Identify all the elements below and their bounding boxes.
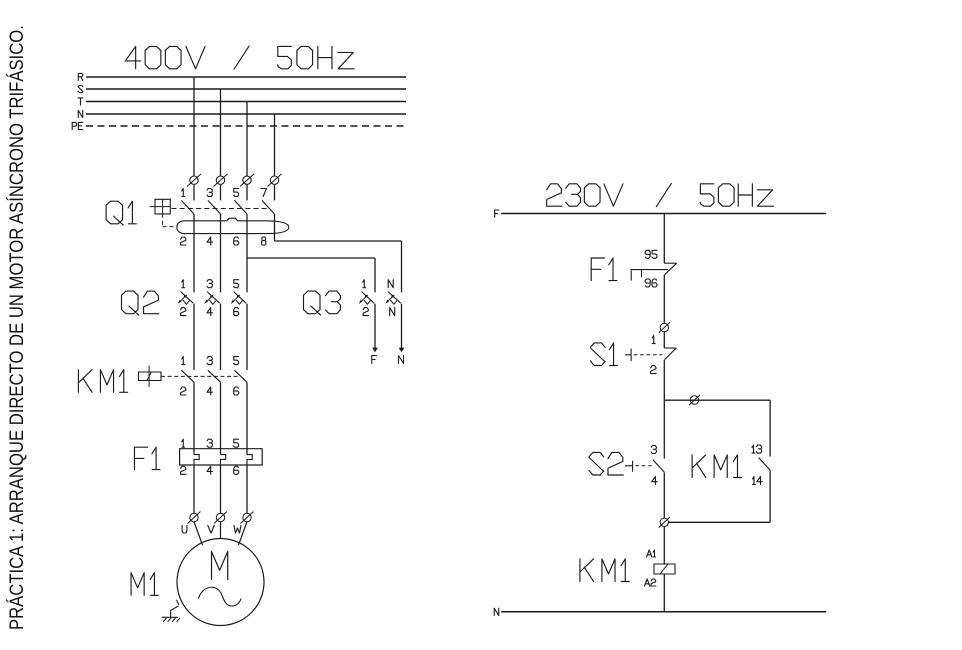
Q1 pin 8 xyxy=(262,237,266,245)
bus N xyxy=(78,110,406,117)
KM1 coil pin A2 xyxy=(645,579,656,586)
motor lead W xyxy=(239,522,248,545)
KM1 pole contact 5-6 xyxy=(234,370,247,454)
Q1 linkage xyxy=(172,208,267,210)
Q1 pin 4 xyxy=(207,237,212,245)
Q2 pin 1 xyxy=(182,280,185,288)
KM1 aux label xyxy=(692,455,741,478)
title 400V / 50Hz xyxy=(125,46,354,69)
terminal V xyxy=(214,512,227,524)
terminal branch xyxy=(689,395,700,406)
KM1 coil label xyxy=(580,559,629,582)
S2 actuator xyxy=(625,461,652,472)
KM1 pin 2 xyxy=(181,387,186,395)
ground xyxy=(162,600,180,622)
wire N to Q1 xyxy=(274,114,276,176)
Q1 pin 3 xyxy=(207,189,212,197)
Q2 pin 3 xyxy=(207,280,212,288)
KM1 aux pin 14 xyxy=(752,477,762,485)
S1 pin 2 xyxy=(651,366,656,374)
motor sine xyxy=(199,587,242,606)
Q3 pin 2 bottom xyxy=(363,308,368,316)
KM1 pole contact 3-4 xyxy=(208,370,221,454)
Q1 pin 6 xyxy=(234,237,239,245)
Q2 pin 6 xyxy=(234,308,239,316)
Q2 pole contact 1-2 xyxy=(178,292,194,370)
Q3 pole contact N-N xyxy=(385,292,401,351)
control F1 contact xyxy=(631,263,677,280)
S2 pin 3 xyxy=(651,446,656,454)
KM1 pole contact 1-2 xyxy=(181,370,194,454)
Q1 pole contact 1-2 xyxy=(181,185,194,293)
F1 box xyxy=(180,449,263,465)
Q2 pin 5 xyxy=(234,280,239,288)
terminal Q1 pole 4 xyxy=(268,174,282,187)
Q1 pin 5 xyxy=(234,189,239,197)
KM1 aux contact xyxy=(759,458,771,471)
F1 heater 5-6 xyxy=(247,455,252,514)
F1 heater 1-2 xyxy=(194,455,199,514)
svg-text:PRÁCTICA 1: ARRANQUE DIRECTO D: PRÁCTICA 1: ARRANQUE DIRECTO DE UN MOTOR… xyxy=(6,25,28,630)
KM1 aux pin 13 xyxy=(752,445,762,453)
S1 actuator xyxy=(625,349,662,362)
terminal junction xyxy=(659,517,670,528)
wire R to Q1 xyxy=(193,77,195,176)
F1 pin 95 xyxy=(645,250,657,258)
bus T xyxy=(78,98,406,105)
KM1 pin 4 xyxy=(207,387,212,395)
wire KM1 aux down xyxy=(669,470,771,522)
motor M glyph xyxy=(212,552,228,580)
motor lead V xyxy=(220,522,222,538)
wire S1 to branch xyxy=(663,360,665,400)
terminal Q1 pole 2 xyxy=(214,174,228,187)
bus S xyxy=(78,85,406,92)
Q3 pole contact 1-2 xyxy=(359,292,375,351)
Q1 pin 1 xyxy=(182,189,185,197)
S1 pin 1 xyxy=(652,336,655,344)
wire F1 to terminal xyxy=(663,275,665,323)
breaker Q2 label xyxy=(122,291,159,315)
Q1 trip oval xyxy=(177,218,289,233)
KM1 coil xyxy=(654,564,675,574)
terminal V label xyxy=(208,525,215,533)
Q2 pole contact 5-6 xyxy=(231,292,247,370)
bus F xyxy=(495,210,827,217)
arrow to F xyxy=(372,348,378,364)
bus PE xyxy=(72,122,406,129)
wire Q1-8 to Q3 N xyxy=(275,241,402,292)
motor M1 label xyxy=(131,573,158,596)
Q3 pin 1 top xyxy=(363,280,366,288)
Q1 linkage to RCD oval xyxy=(163,214,176,227)
terminal W xyxy=(241,512,254,524)
pushbutton S1 label xyxy=(590,343,617,366)
overload F1 label xyxy=(134,447,159,469)
control F1 label xyxy=(591,258,617,281)
F1 pin 1 xyxy=(182,439,185,447)
wire S to Q1 xyxy=(220,89,222,176)
F1 pin 3 xyxy=(207,439,212,447)
terminal Q1 pole 3 xyxy=(240,174,254,187)
wire branch to S2 xyxy=(663,400,665,458)
title 230V / 50Hz xyxy=(547,183,774,206)
Q3 pin N top xyxy=(388,280,393,288)
Q1 manual actuator xyxy=(150,199,171,214)
KM1 coil pin A1 xyxy=(647,550,656,557)
S2 contact xyxy=(653,460,665,473)
Q3 pin N bottom xyxy=(390,308,395,316)
pushbutton S2 label xyxy=(589,452,623,475)
F1 heater 3-4 xyxy=(221,455,226,514)
terminal U label xyxy=(182,525,187,533)
KM1 pin 6 xyxy=(234,387,239,395)
Q1 pole contact 7-8 xyxy=(262,185,275,241)
Q2 pin 2 xyxy=(181,308,186,316)
wire F to F1 xyxy=(663,214,665,264)
Q1 pin 2 xyxy=(181,237,186,245)
Q1 pole contact 5-6 xyxy=(234,185,247,293)
Q2 pole contact 3-4 xyxy=(204,292,220,370)
F1 pin 96 xyxy=(645,279,657,287)
Q1 pin 7 xyxy=(261,189,267,197)
F1 pin 5 xyxy=(234,439,239,447)
KM1 pin 5 xyxy=(234,357,239,365)
breaker Q1 label xyxy=(106,201,136,225)
bus N control xyxy=(494,608,826,615)
wire T to Q1 xyxy=(246,102,248,177)
terminal F1-S1 xyxy=(659,322,670,333)
motor lead U xyxy=(194,522,203,545)
F1 pin 6 xyxy=(234,466,239,474)
F1 pin 4 xyxy=(207,466,212,474)
terminal Q1 pole 1 xyxy=(187,174,201,187)
F1 pin 2 xyxy=(181,466,186,474)
KM1 pin 3 xyxy=(207,357,212,365)
Q2 pin 4 xyxy=(207,308,212,316)
contactor KM1 label xyxy=(78,370,127,393)
branch node xyxy=(664,399,770,401)
motor M1 circle xyxy=(177,539,264,626)
S1 contact xyxy=(664,348,676,360)
KM1 linkage xyxy=(161,375,240,377)
wire junction to coil xyxy=(663,527,665,565)
wire S2 to junction xyxy=(663,472,665,518)
terminal U xyxy=(188,512,201,524)
wire branch down to KM1 aux xyxy=(769,400,771,456)
bus R xyxy=(78,73,406,80)
wire terminal to S1 xyxy=(663,332,665,348)
Q1 pole contact 3-4 xyxy=(208,185,221,293)
wire T branch to Q3 xyxy=(247,258,375,292)
wire coil to N xyxy=(663,574,665,612)
arrow to N xyxy=(398,348,404,364)
KM1 coil actuator xyxy=(139,366,162,388)
KM1 pin 1 xyxy=(182,357,185,365)
S2 pin 4 xyxy=(652,477,657,485)
terminal W label xyxy=(234,525,241,533)
breaker Q3 label xyxy=(304,291,341,315)
